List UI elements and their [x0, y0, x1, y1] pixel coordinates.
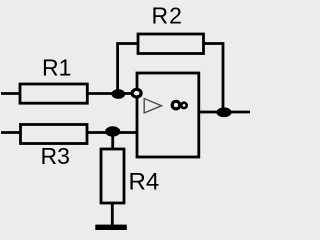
wire R4 bottom to ground: [111, 203, 114, 227]
wire R2 left lead down to inverting node: [118, 44, 138, 95]
op-amp amplifier triangle symbol: [144, 99, 161, 114]
resistor R3: [21, 125, 88, 144]
resistor R4: [101, 149, 124, 203]
svg-text:R4: R4: [129, 169, 160, 196]
junction node at non-inverting input: [105, 126, 120, 136]
wire R3 left stub: [1, 131, 21, 134]
junction node at output: [216, 107, 231, 117]
resistor R2: [138, 34, 204, 54]
op-amp inverting input bubble: [132, 89, 141, 97]
wire R2 right lead down to output node: [204, 44, 224, 113]
resistor R1: [20, 84, 87, 103]
wire R1 left stub: [1, 92, 20, 95]
wire R1 output to inverting input node: [87, 92, 132, 95]
junction node at inverting input: [112, 89, 126, 99]
svg-text:R1: R1: [42, 55, 71, 81]
op-amp infinite gain symbol: [172, 101, 180, 109]
svg-text:R2: R2: [152, 3, 183, 29]
wire R3 output to non-inverting input: [87, 131, 137, 134]
svg-text:R3: R3: [41, 143, 70, 169]
op-amp U1 body: [137, 73, 199, 157]
ground: [95, 225, 127, 230]
wire output: [199, 111, 251, 114]
wire junction down to R4: [111, 132, 114, 149]
